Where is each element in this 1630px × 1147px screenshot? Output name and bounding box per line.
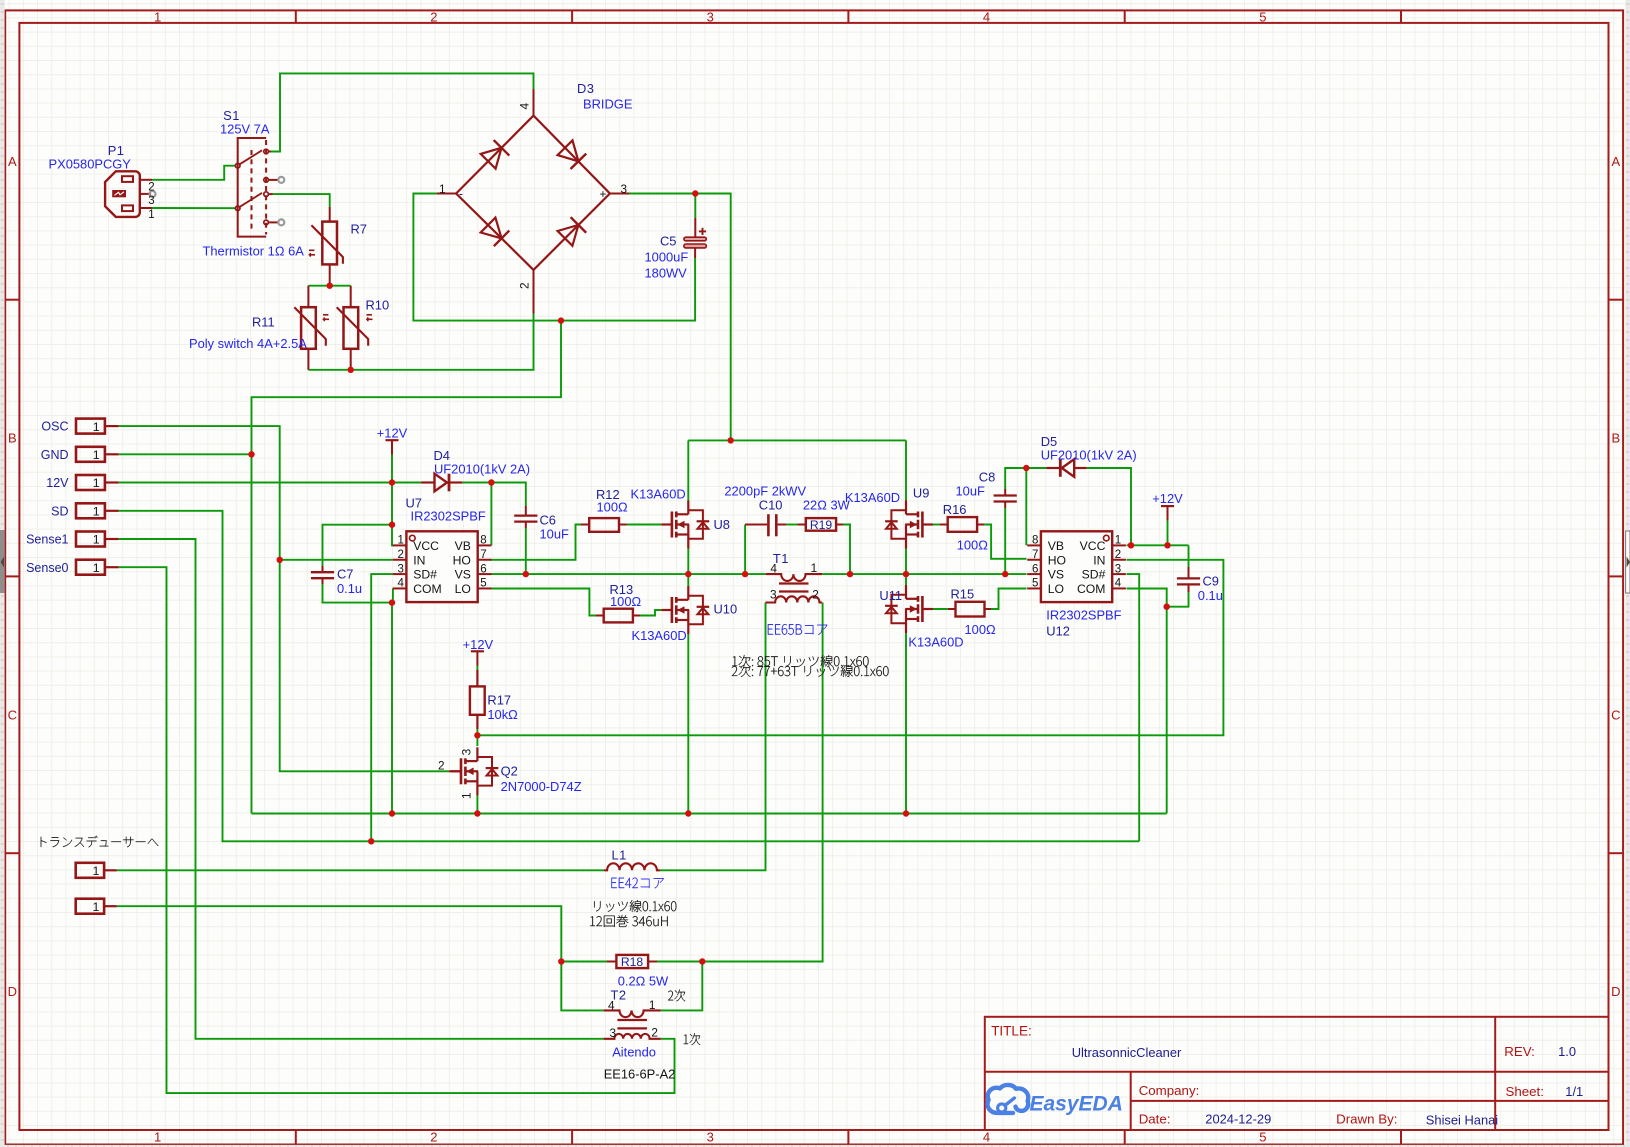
left scrollbar	[0, 0, 5, 1147]
P1 pin3 unconnected marker	[150, 191, 156, 197]
svg-text:VB: VB	[455, 539, 471, 553]
R7 t-mark	[309, 250, 315, 256]
svg-text:Sheet:: Sheet:	[1506, 1084, 1544, 1099]
capacitor C7	[311, 566, 334, 584]
wire R19 right down to T1 pin1 line	[843, 525, 850, 575]
svg-text:10kΩ: 10kΩ	[487, 707, 518, 722]
pin header GND	[41, 447, 119, 462]
wire R18 right to T1 pin2	[657, 603, 823, 962]
wire R11 R10 bottom to bridge pin2	[308, 313, 533, 370]
T1 winding note line2	[732, 665, 889, 677]
transformer T2 secondary winding	[604, 1010, 661, 1017]
svg-text:D: D	[8, 984, 17, 999]
right scrollbar	[1625, 0, 1630, 1147]
svg-text:R19: R19	[810, 518, 833, 532]
svg-text:7: 7	[480, 549, 486, 561]
svg-text:1: 1	[93, 533, 100, 547]
wire GND connector to GND vertical	[119, 453, 252, 455]
T1 value EE65B core	[768, 624, 827, 635]
wire P1 pin1 to S1 pole2	[152, 207, 236, 209]
S1 contact 1	[264, 149, 269, 154]
svg-text:SD#: SD#	[413, 568, 437, 582]
S1 contact NC2	[264, 220, 278, 225]
wire C7 top to VCC node	[323, 525, 393, 566]
svg-text:C7: C7	[337, 567, 353, 582]
resistor R13	[596, 609, 640, 623]
svg-text:C10: C10	[759, 497, 783, 512]
svg-text:1: 1	[1115, 535, 1121, 547]
wire R18 left wire	[561, 961, 607, 963]
svg-text:1: 1	[439, 182, 446, 196]
wire U7 VB pin8 to D4 cathode node	[490, 483, 492, 546]
P1 pin 1	[140, 207, 152, 209]
svg-text:0.1u: 0.1u	[337, 581, 362, 596]
svg-text:-: -	[459, 187, 463, 201]
svg-text:3: 3	[770, 588, 777, 602]
R10 top pin	[350, 286, 352, 308]
wire U8 drain	[687, 440, 689, 500]
svg-text:R15: R15	[951, 587, 975, 602]
svg-text:5: 5	[1259, 9, 1266, 24]
T1 winding note line1	[732, 655, 868, 667]
wire U9 drain	[905, 440, 907, 500]
svg-text:7: 7	[1032, 549, 1038, 561]
svg-text:1: 1	[92, 900, 99, 914]
svg-text:1000uF: 1000uF	[645, 250, 689, 265]
svg-text:U10: U10	[714, 602, 738, 617]
svg-text:C9: C9	[1203, 573, 1219, 588]
svg-text:D3: D3	[577, 81, 594, 96]
svg-text:LO: LO	[1048, 582, 1064, 596]
R10 diagonal	[337, 307, 369, 346]
C5 bottom pin	[694, 248, 696, 258]
svg-text:125V 7A: 125V 7A	[220, 122, 270, 137]
svg-text:2: 2	[812, 588, 819, 602]
svg-text:LO: LO	[455, 582, 471, 596]
svg-text:Company:: Company:	[1139, 1083, 1200, 1098]
svg-text:1: 1	[93, 561, 100, 575]
svg-text:3: 3	[460, 748, 474, 755]
wire positive rail horizontal	[688, 439, 906, 441]
Q2 pin numbers	[438, 748, 474, 799]
svg-text:COM: COM	[1077, 582, 1105, 596]
svg-text:5: 5	[480, 578, 486, 590]
wire COM node down to GND bus	[391, 603, 393, 814]
bridge diode 1-2	[481, 218, 510, 247]
inductor L1	[604, 863, 660, 870]
wire R18 left node down to T2 pin4	[561, 962, 603, 1011]
svg-text:EasyEDA: EasyEDA	[1030, 1093, 1123, 1116]
svg-text:2: 2	[651, 1026, 658, 1040]
svg-text:HO: HO	[1048, 553, 1066, 567]
svg-text:1: 1	[811, 561, 818, 575]
svg-text:VS: VS	[1048, 568, 1064, 582]
svg-text:REV:: REV:	[1504, 1044, 1535, 1059]
svg-text:EE16-6P-A2: EE16-6P-A2	[604, 1067, 676, 1082]
svg-text:4: 4	[608, 999, 615, 1013]
EasyEDA logo	[987, 1085, 1122, 1116]
svg-text:8: 8	[480, 535, 486, 547]
svg-text:2200pF 2kWV: 2200pF 2kWV	[724, 483, 806, 498]
svg-text:UF2010(1kV 2A): UF2010(1kV 2A)	[434, 461, 530, 476]
transistor U11 K13A60D	[885, 585, 933, 633]
S1 right dashed line	[265, 140, 267, 235]
svg-text:3: 3	[610, 1026, 617, 1040]
capacitor C6	[514, 506, 537, 528]
bridge pin 1 stub	[437, 193, 456, 195]
svg-text:R17: R17	[487, 693, 511, 708]
svg-text:3: 3	[1115, 563, 1121, 575]
resistor R15	[948, 602, 991, 617]
transistor Q2 2N7000	[450, 747, 498, 795]
wire U8 source to VS node	[687, 549, 689, 575]
wire GND bus horizontal	[252, 813, 1167, 815]
wire R17 bottom to Q2 drain	[476, 728, 478, 746]
transformer T1 primary winding	[766, 574, 822, 581]
svg-text:4: 4	[518, 103, 532, 110]
svg-text:10uF: 10uF	[540, 527, 570, 542]
svg-text:VCC: VCC	[1080, 539, 1106, 553]
wire junction dots	[248, 190, 1170, 964]
svg-text:1: 1	[148, 209, 154, 221]
S1 NC1 unconnected marker	[278, 177, 284, 183]
polyswitch R11 body	[301, 307, 316, 349]
bridge pin 2 stub	[533, 270, 535, 314]
border column numbers 1-5	[154, 9, 1267, 1144]
pin header 12V	[46, 475, 118, 490]
wire U11 drain	[905, 574, 907, 585]
wire C10 to R19	[786, 524, 798, 526]
svg-text:3: 3	[707, 1129, 714, 1144]
svg-text:8: 8	[1032, 535, 1038, 547]
wire transducer pin1 to L1	[117, 869, 604, 871]
wire C8 top to D5 cathode	[1005, 468, 1046, 489]
svg-text:U12: U12	[1046, 624, 1070, 639]
svg-text:VS: VS	[455, 568, 471, 582]
S1 NC2 unconnected marker	[278, 219, 284, 225]
+12V power flag (Q2)	[463, 637, 494, 666]
svg-text:C8: C8	[979, 470, 995, 485]
svg-text:1: 1	[93, 476, 100, 490]
svg-text:IR2302SPBF: IR2302SPBF	[411, 509, 486, 524]
svg-text:R16: R16	[943, 502, 967, 517]
R7 bottom pin	[329, 264, 331, 286]
svg-text:100Ω: 100Ω	[957, 538, 989, 553]
svg-text:K13A60D: K13A60D	[845, 490, 900, 505]
wire Sense0 connector to T2 pin2	[119, 567, 675, 1093]
pin header SD	[51, 503, 119, 518]
wire U12 IN pin2 to Q2 drain line	[477, 560, 1223, 736]
wire S1 contact to R7 top	[272, 194, 330, 207]
resistor R19	[798, 518, 844, 532]
svg-text:0.1u: 0.1u	[1198, 588, 1223, 603]
svg-text:B: B	[8, 431, 17, 446]
bridge pin 3 stub	[610, 193, 629, 195]
polyswitch R10 body	[344, 307, 359, 349]
P1 pin 2	[140, 179, 152, 181]
svg-text:2: 2	[430, 9, 437, 24]
capacitor C9	[1177, 567, 1200, 592]
svg-text:4: 4	[983, 9, 990, 24]
wire D4 cathode to C6 top	[462, 483, 525, 507]
T1 secondary winding	[766, 596, 823, 602]
wire U11 source to GND bus	[905, 633, 907, 814]
R7 top pin	[329, 207, 331, 222]
label transducer	[41, 836, 159, 848]
S1 blade 2	[239, 193, 262, 207]
wire U10 drain	[687, 574, 689, 586]
S1 contact 2 stub	[268, 193, 272, 195]
svg-text:TITLE:: TITLE:	[991, 1023, 1032, 1038]
svg-text:Thermistor 1Ω 6A: Thermistor 1Ω 6A	[203, 244, 305, 259]
svg-text:A: A	[8, 154, 17, 169]
svg-text:2: 2	[397, 549, 403, 561]
svg-text:1: 1	[397, 535, 403, 547]
resistor R17	[470, 670, 485, 729]
wire transducer pin2 to R18 left node	[117, 906, 562, 961]
S1 contact NC1	[264, 178, 278, 183]
resistor R18	[607, 955, 657, 969]
pin header OSC	[41, 419, 118, 434]
svg-text:0.2Ω 5W: 0.2Ω 5W	[618, 974, 669, 989]
wire U7 SD# pin3 jog down	[371, 574, 393, 841]
R7 diagonal	[311, 225, 343, 263]
svg-text:4: 4	[770, 562, 777, 576]
svg-text:C: C	[8, 707, 17, 722]
svg-text:C5: C5	[660, 234, 676, 249]
wire U9 source to VS node	[905, 549, 907, 575]
T1 pin numbers	[770, 561, 819, 602]
wire R15 to U12 LO pin5	[991, 589, 1027, 610]
svg-text:Q2: Q2	[501, 764, 518, 779]
svg-text:L1: L1	[612, 848, 627, 863]
wire negative rail to GND net down-left	[252, 321, 562, 814]
wire VB node down to U12 VB pin8	[1025, 468, 1027, 545]
wire OSC node to U7 IN pin2	[280, 559, 393, 561]
svg-text:1: 1	[154, 9, 161, 24]
capacitor C5 plates	[684, 237, 706, 248]
wire C10 branch to VS line	[744, 525, 746, 575]
transistor U8 K13A60D	[661, 501, 709, 549]
pin transducer 2	[76, 899, 117, 914]
P1 pin 3	[140, 193, 151, 195]
svg-text:3: 3	[707, 9, 714, 24]
svg-text:C6: C6	[540, 513, 556, 528]
op-amp driver U7 IR2302SPBF	[393, 531, 492, 602]
+12V power flag (U12)	[1152, 491, 1183, 521]
S1 contact 2	[264, 192, 269, 197]
svg-text:Sense1: Sense1	[26, 533, 68, 547]
L1 value EE42 core	[612, 878, 664, 889]
svg-text:Aitendo: Aitendo	[612, 1045, 656, 1060]
wire bridge pin4 to S1 top contact	[271, 73, 534, 151]
svg-text:OSC: OSC	[41, 420, 68, 434]
wire U7 VS pin6 to T1 pin4	[490, 573, 766, 575]
wire +12V flag to R17 top	[476, 665, 478, 671]
svg-text:K13A60D: K13A60D	[908, 635, 963, 650]
L1 note line1	[594, 900, 676, 912]
S1 coupler dashed line	[251, 150, 253, 231]
svg-text:UF2010(1kV 2A): UF2010(1kV 2A)	[1041, 448, 1137, 463]
R10 bottom pin	[350, 349, 352, 370]
svg-text:4: 4	[1115, 578, 1122, 590]
svg-text:4: 4	[983, 1129, 990, 1144]
svg-text:3: 3	[397, 563, 403, 575]
svg-text:Drawn By:: Drawn By:	[1336, 1112, 1397, 1127]
thermistor R7 body	[322, 222, 337, 265]
svg-text:Sense0: Sense0	[26, 561, 68, 575]
wire bridge pin1 negative rail to C5 bottom	[413, 194, 695, 321]
svg-text:VCC: VCC	[413, 539, 439, 553]
svg-text:100Ω: 100Ω	[597, 499, 629, 514]
T2 label 1ji	[684, 1033, 701, 1045]
svg-text:IR2302SPBF: IR2302SPBF	[1046, 608, 1121, 623]
wire T1 pin1 to U12 VS pin6	[822, 573, 1026, 575]
svg-text:B: B	[1611, 431, 1620, 446]
resistor R16	[940, 517, 984, 532]
svg-text:GND: GND	[41, 448, 69, 462]
C5 plus sign	[699, 228, 706, 235]
R11 top pin	[307, 286, 309, 308]
wire R12 to U8 gate	[627, 524, 661, 526]
svg-text:+: +	[600, 187, 607, 201]
svg-text:U8: U8	[714, 517, 730, 532]
S1 blade 1	[239, 150, 262, 164]
wire R7 bottom node	[308, 285, 350, 287]
transistor U10 K13A60D	[661, 586, 709, 634]
diode D4	[421, 474, 462, 492]
S1 top contact stub	[268, 151, 271, 153]
svg-text:VB: VB	[1048, 539, 1064, 553]
svg-text:U9: U9	[913, 485, 929, 500]
wire +12V flag right to VCC line	[1167, 519, 1169, 545]
svg-text:U11: U11	[879, 588, 902, 603]
svg-text:1: 1	[460, 792, 474, 799]
T2 primary winding	[604, 1034, 661, 1039]
svg-text:3: 3	[148, 195, 154, 207]
svg-text:1: 1	[93, 448, 100, 462]
wire VCC line down to C9 top	[1188, 545, 1190, 567]
svg-text:1: 1	[93, 420, 100, 434]
svg-text:K13A60D: K13A60D	[631, 487, 686, 502]
wire C8 bottom to VS line	[1004, 508, 1006, 574]
svg-text:4: 4	[397, 578, 404, 590]
svg-text:100Ω: 100Ω	[610, 594, 642, 609]
wire U11 gate to R15	[930, 608, 948, 610]
bridge diode 4-3	[558, 140, 587, 169]
T2 core	[617, 1020, 647, 1028]
svg-text:IN: IN	[1093, 553, 1105, 567]
svg-text:R18: R18	[621, 955, 644, 969]
svg-text:1/1: 1/1	[1565, 1084, 1583, 1099]
svg-text:R7: R7	[351, 222, 367, 237]
wire Sense1 connector to T2 pin3	[119, 539, 604, 1039]
P1 pin numbers	[148, 181, 154, 221]
capacitor C8	[994, 489, 1017, 508]
svg-text:2024-12-29: 2024-12-29	[1205, 1112, 1271, 1127]
Q2 gate stub extra	[449, 770, 461, 772]
svg-text:SD: SD	[51, 504, 68, 518]
wire U9 gate to R16	[930, 524, 940, 526]
svg-text:+12V: +12V	[463, 637, 494, 652]
svg-text:+12V: +12V	[377, 425, 408, 440]
T2 pin numbers	[608, 998, 658, 1040]
svg-text:R10: R10	[366, 298, 390, 313]
svg-text:10uF: 10uF	[956, 484, 986, 499]
wire U12 VCC line	[1127, 544, 1189, 546]
svg-text:1: 1	[93, 505, 100, 519]
wire C6 bottom to VS line	[525, 528, 527, 574]
svg-text:180WV: 180WV	[645, 266, 688, 281]
svg-text:2: 2	[438, 759, 445, 773]
svg-text:IN: IN	[413, 553, 425, 567]
pin header Sense0	[26, 560, 119, 575]
C5 top pin	[694, 218, 696, 237]
svg-text:COM: COM	[413, 582, 441, 596]
wire U7 LO pin5 to R13	[490, 589, 596, 616]
R10 t-mark	[366, 315, 372, 321]
pin transducer 1	[76, 863, 117, 878]
svg-text:BRIDGE: BRIDGE	[583, 97, 633, 112]
switch S1 outline	[238, 138, 266, 237]
wire L1 to T1 pin3	[660, 603, 766, 871]
wire Q2 source to GND bus	[476, 795, 478, 814]
R11 bottom pin	[307, 349, 309, 370]
svg-text:1: 1	[649, 998, 656, 1012]
wire C7 bottom to COM node	[323, 584, 393, 603]
svg-text:2: 2	[1115, 549, 1121, 561]
svg-text:2N7000-D74Z: 2N7000-D74Z	[501, 779, 582, 794]
resistor R12	[581, 518, 627, 532]
bridge pin 4 stub	[533, 89, 535, 116]
wire D5 anode to VCC node	[1087, 468, 1131, 545]
svg-text:5: 5	[1259, 1129, 1266, 1144]
wire T2 pin1 up to R18 right node	[661, 962, 703, 1011]
svg-text:PX0580PCGY: PX0580PCGY	[49, 156, 132, 171]
wire +12V flag to 12V line	[391, 454, 393, 483]
wire U7 COM pin4 down	[392, 589, 394, 603]
wire U7 HO pin7 to R12	[490, 525, 581, 560]
svg-text:3: 3	[621, 182, 628, 196]
svg-text:6: 6	[1032, 563, 1038, 575]
wire C9 bottom to GND vertical	[1167, 592, 1189, 607]
capacitor C10	[745, 514, 786, 536]
svg-text:2: 2	[430, 1129, 437, 1144]
connector P1 PX0580PCGY body	[105, 171, 140, 217]
+12V power flag (U7)	[377, 425, 408, 454]
svg-text:+12V: +12V	[1152, 491, 1183, 506]
bridge D3 diamond	[456, 116, 610, 270]
op-amp driver U12 IR2302SPBF	[1027, 531, 1126, 602]
border row letters A-D	[8, 154, 1621, 999]
S1 pole 2	[235, 206, 240, 211]
bottom scrollbar strip	[0, 1145, 1630, 1147]
svg-text:SD#: SD#	[1082, 568, 1106, 582]
R11 t-mark	[323, 315, 329, 321]
wire OSC connector down to Q2 gate	[119, 426, 449, 771]
svg-text:HO: HO	[453, 553, 471, 567]
wire R13 to U10 gate	[640, 610, 661, 616]
wire U12 SD# pin3 to SD# bus	[1127, 574, 1140, 841]
title block frame	[985, 1017, 1609, 1130]
svg-text:Poly switch 4A+2.5A: Poly switch 4A+2.5A	[189, 336, 307, 351]
svg-text:22Ω 3W: 22Ω 3W	[803, 497, 851, 512]
svg-text:2: 2	[148, 181, 154, 193]
wire P1 pin2 to S1 pole1	[152, 166, 236, 180]
svg-text:5: 5	[1032, 578, 1038, 590]
wire 12V connector to D4 anode	[119, 482, 421, 484]
T1 core	[779, 584, 809, 592]
